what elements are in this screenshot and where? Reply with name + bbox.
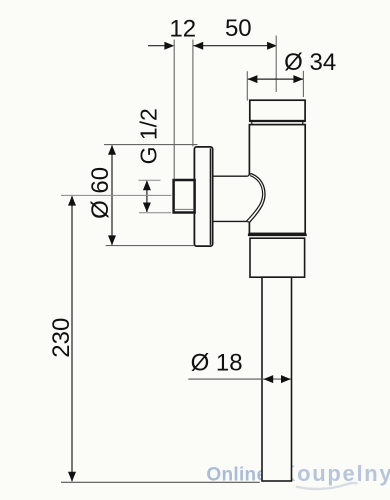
inlet arm bottom line xyxy=(213,220,247,222)
nipple chamfer line xyxy=(175,208,194,210)
dim d18 right arrow xyxy=(281,375,291,383)
ext line 50 right xyxy=(275,36,277,93)
boss chamfer top xyxy=(248,174,251,177)
ext line 12 right xyxy=(192,40,194,147)
boss inner curve xyxy=(247,176,263,222)
dim d34 right arrow xyxy=(293,75,303,83)
dim G12 bottom arrow xyxy=(143,203,151,213)
svg-text:Koupelny: Koupelny xyxy=(280,461,390,486)
svg-text:230: 230 xyxy=(48,318,75,358)
boss outer curve xyxy=(250,174,265,223)
dim G12 top arrow xyxy=(143,180,151,190)
inlet boss white mask xyxy=(214,174,265,223)
svg-text:Ø 60: Ø 60 xyxy=(87,167,114,219)
ext line G12 bottom xyxy=(139,212,171,214)
svg-text:Ø 34: Ø 34 xyxy=(284,49,336,76)
ext line d60 top xyxy=(104,144,198,146)
dim d60 bottom arrow xyxy=(108,235,116,245)
cap groove band xyxy=(252,121,303,125)
dim 230 top arrow xyxy=(68,196,76,206)
ext line 230 top xyxy=(61,194,171,196)
dim d34 line xyxy=(248,78,303,80)
dim d34 left arrow xyxy=(248,75,258,83)
ext line G12 top xyxy=(138,179,160,181)
ext line d60 bottom xyxy=(106,245,194,247)
ext line d34 left xyxy=(246,71,248,100)
wall flange xyxy=(194,147,212,246)
dim 230 line xyxy=(71,196,73,481)
dim d60 top arrow xyxy=(108,145,116,155)
cap groove thick line xyxy=(249,120,306,122)
dim 12 left arrow xyxy=(164,42,174,50)
svg-text:Ø 18: Ø 18 xyxy=(191,349,243,376)
dim d18 left arrow xyxy=(263,375,273,383)
inlet arm top line xyxy=(213,175,248,177)
seam thick line xyxy=(248,233,307,236)
svg-text:G 1/2: G 1/2 xyxy=(136,108,162,164)
dim 50 left arrow xyxy=(193,42,203,50)
dim d60 line xyxy=(111,146,113,246)
ext line d34 right xyxy=(302,71,304,97)
svg-text:12: 12 xyxy=(169,15,196,42)
dim 230 bottom arrow xyxy=(68,472,76,482)
valve upper body xyxy=(249,125,305,234)
dim G12 line xyxy=(146,181,148,212)
outlet pipe xyxy=(262,277,292,481)
flange inner edge line xyxy=(209,148,211,245)
ext line 230 bottom xyxy=(61,481,260,483)
threaded nipple G1/2 xyxy=(174,180,195,213)
dim 50 line xyxy=(194,45,277,47)
valve lower body xyxy=(250,238,305,277)
dim 50 right arrow xyxy=(267,42,277,50)
dim 12 tail line xyxy=(148,45,170,47)
svg-text:50: 50 xyxy=(225,15,252,42)
valve cap xyxy=(250,100,305,121)
dim d18 leader line xyxy=(188,378,290,380)
ext line 12 left xyxy=(173,40,175,180)
boss chamfer bottom xyxy=(246,221,250,224)
watermark swoosh xyxy=(296,483,358,489)
